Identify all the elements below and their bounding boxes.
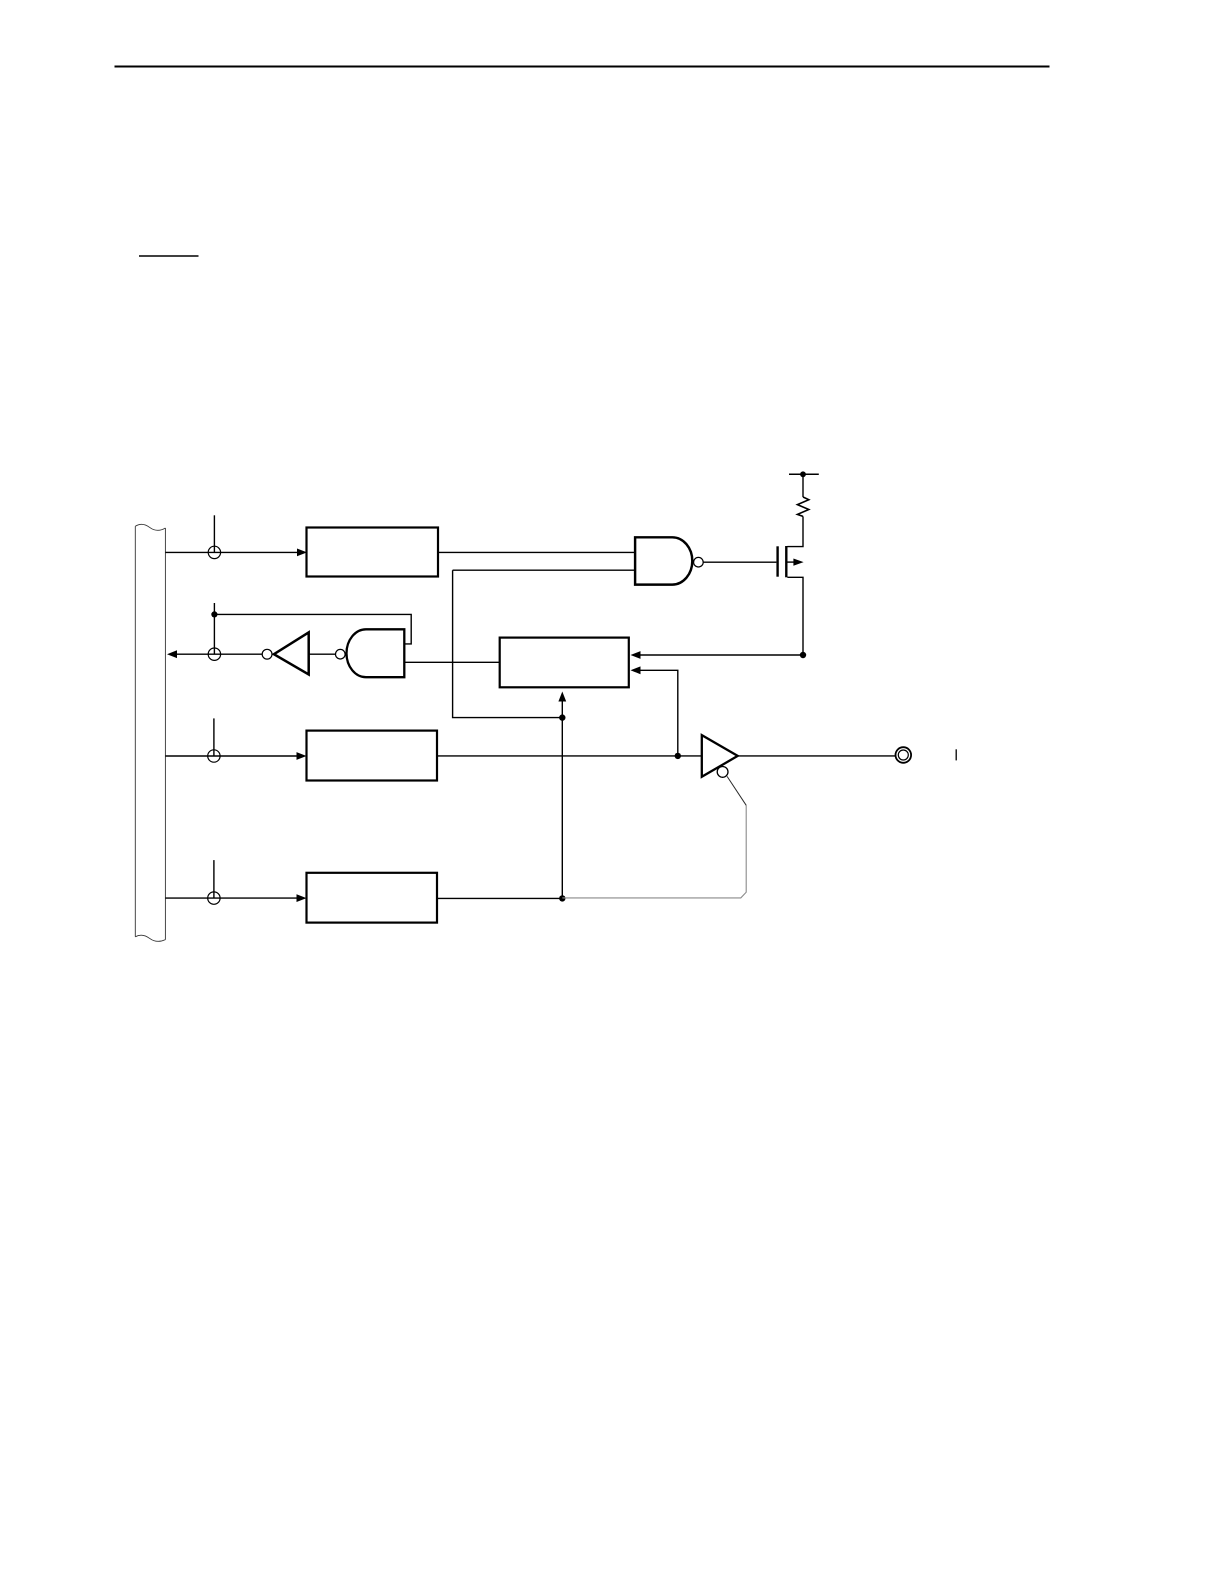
arrowhead into selector bottom [558, 692, 566, 702]
internal bus [135, 524, 165, 941]
wire: output latch to buffer [437, 755, 702, 757]
nand gate U1 [635, 537, 692, 584]
buffer U4 enable bubble [717, 767, 728, 778]
wire: row3 bus tap stub [213, 718, 215, 756]
wire: vertical mode line down to PM row [561, 718, 563, 899]
wire: row1 bus tap stub [213, 515, 215, 552]
header rule [115, 65, 1050, 67]
wire: NAND output to Q1 gate [703, 561, 776, 563]
node: row4 bus tap circle [208, 892, 220, 904]
nand U1 output bubble [694, 557, 704, 567]
pad P64 inner ring [898, 750, 908, 760]
nand U2 output bubble [336, 649, 346, 659]
wire: vertical x452.6 down to selector feed [453, 570, 563, 717]
arrowhead into bus [167, 650, 177, 658]
arrowhead into PM register [297, 894, 307, 902]
wire: row4 bus tap stub [213, 860, 215, 898]
pad P64 outer ring [896, 747, 912, 763]
VDD rail [789, 473, 819, 475]
wire: selector output to read NAND [404, 661, 499, 663]
wire: buffer to pad [738, 755, 896, 757]
wire: Q1 source down to pin node [787, 577, 803, 655]
selector block [500, 638, 629, 688]
transistor Q1 (p-ch pull-up) gate bar [776, 546, 778, 576]
wire: bus to PU register [165, 551, 298, 553]
wire: inverter to bus [177, 653, 263, 655]
node label overbar [139, 255, 199, 257]
node: mode junction dot [559, 895, 565, 901]
node: VDD junction dot [800, 471, 806, 477]
wire: row2 stub above dot [213, 603, 215, 614]
wire: pin node to selector input 1 [640, 654, 804, 656]
wire: resistor to Q1 drain [787, 516, 803, 546]
node: junction dot at selector feed [559, 714, 565, 720]
node: junction dot on latch line [675, 753, 681, 759]
inverter U3 output bubble [262, 649, 272, 659]
register PM64 (port mode) [307, 873, 438, 923]
wire: PU register to NAND input A [438, 551, 635, 553]
arrowhead into PU register [297, 549, 307, 557]
output latch P64 [307, 731, 438, 781]
register PU6 (pull-up option) [307, 528, 439, 577]
transistor Q1 channel bar [785, 546, 787, 577]
wire: U2 bubble to inverter [309, 653, 336, 655]
arrowhead into selector input 2 [631, 666, 641, 674]
resistor R1 (pull-up) [797, 497, 808, 516]
inverter U3 [274, 632, 309, 674]
node: feedback junction dot [211, 611, 217, 617]
wire: output-latch line to selector input 2 [640, 670, 678, 756]
nand gate U2 (read buffer, mirrored) [347, 629, 405, 677]
output buffer U4 (tri-state) [702, 735, 738, 777]
node: row2 bus tap circle [208, 648, 220, 660]
transistor Q1 body arrow [787, 561, 794, 563]
wire: NAND input B from selector line [453, 569, 635, 571]
wire: mode line up into selector bottom [561, 702, 563, 718]
wire: dot down to row2 tap [213, 614, 215, 654]
node: row1 bus tap circle [208, 546, 220, 558]
wire: bus to PM register [165, 897, 298, 899]
wire: enable run to buffer (gray) [562, 805, 746, 898]
arrowhead into selector input 1 [631, 651, 641, 659]
wire: PM register to mode node [437, 897, 562, 899]
arrowhead into output latch [297, 752, 307, 760]
wire: feedback step into U2 [214, 614, 411, 644]
node: row3 bus tap circle [208, 750, 220, 762]
wire: enable diagonal to bubble [727, 776, 746, 805]
pin label mark [955, 749, 957, 760]
wire: bus to output latch [165, 755, 298, 757]
wire: VDD to resistor [802, 474, 804, 497]
node: pin-side junction dot [800, 652, 806, 658]
